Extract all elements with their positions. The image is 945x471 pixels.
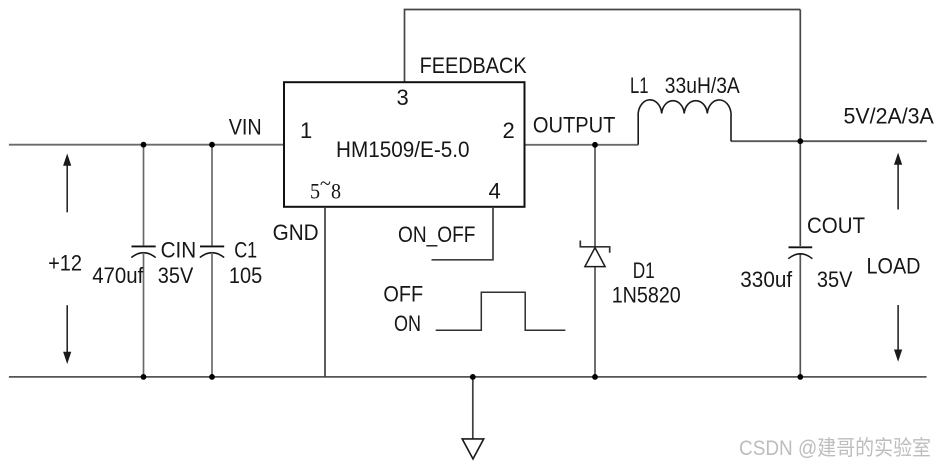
svg-text:VIN: VIN (229, 115, 262, 140)
svg-text:HM1509/E-5.0: HM1509/E-5.0 (336, 137, 470, 162)
arrow LOAD upper (894, 153, 902, 210)
svg-text:1N5820: 1N5820 (612, 283, 681, 308)
wire feedback/COUT vertical upper (799, 10, 801, 247)
wire bottom ground rail (9, 376, 927, 378)
svg-text:CIN: CIN (161, 237, 197, 262)
node junction CIN bottom (141, 374, 147, 380)
wire COUT vertical lower (799, 254, 801, 377)
arrow +12 upper (63, 154, 71, 213)
svg-text:FEEDBACK: FEEDBACK (420, 53, 527, 78)
svg-text:C1: C1 (234, 237, 257, 262)
arrow +12 lower (63, 305, 71, 364)
node junction C1 bottom (209, 374, 215, 380)
watermark CSDN (739, 437, 932, 461)
wire output pin segment (525, 144, 639, 146)
svg-text:LOAD: LOAD (867, 253, 921, 278)
svg-text:2: 2 (503, 118, 515, 143)
svg-text:330uf: 330uf (740, 267, 793, 292)
wire input rail VIN (9, 144, 284, 146)
svg-text:OUTPUT: OUTPUT (533, 113, 616, 138)
svg-text:GND: GND (273, 220, 319, 245)
capacitor C1 (200, 145, 224, 377)
svg-text:COUT: COUT (807, 213, 865, 238)
wire ON_OFF pin 4 stub (432, 207, 494, 260)
node junction C1 top (209, 142, 215, 148)
op-amp U1 IC box HM1509/E-5.0 (284, 82, 525, 207)
svg-text:ON: ON (394, 311, 421, 336)
capacitor COUT (788, 247, 812, 258)
svg-text:3: 3 (397, 85, 409, 110)
wire output rail right of inductor (731, 140, 927, 142)
svg-text:470uf: 470uf (92, 263, 144, 288)
wire GND pin 5~8 vertical (324, 207, 326, 377)
svg-text:ON_OFF: ON_OFF (398, 222, 475, 247)
node junction COUT top (797, 138, 803, 144)
svg-text:CSDN @建哥的实验室: CSDN @建哥的实验室 (739, 437, 931, 460)
wire feedback loop (405, 10, 801, 83)
node junction diode top (592, 142, 598, 148)
svg-text:D1: D1 (633, 258, 655, 283)
svg-text:OFF: OFF (383, 282, 423, 307)
svg-text:105: 105 (229, 263, 262, 288)
node junction CIN top (141, 142, 147, 148)
svg-text:+12: +12 (48, 251, 82, 276)
svg-text:L1: L1 (630, 73, 649, 98)
svg-text:4: 4 (489, 179, 501, 204)
arrow LOAD lower (894, 305, 902, 362)
waveform pulse ON/OFF (436, 292, 566, 330)
node junction ground (470, 374, 476, 380)
inductor L1 (638, 100, 731, 145)
svg-text:35V: 35V (817, 267, 853, 292)
ground symbol (462, 377, 484, 459)
svg-text:33uH/3A: 33uH/3A (665, 73, 740, 98)
svg-text:5V/2A/3A: 5V/2A/3A (844, 104, 935, 129)
svg-text:35V: 35V (158, 263, 194, 288)
capacitor CIN (131, 145, 155, 377)
diode D1 1N5820 (580, 145, 609, 377)
svg-text:1: 1 (300, 118, 312, 143)
node junction COUT bottom (797, 374, 803, 380)
node junction diode bottom (592, 374, 598, 380)
